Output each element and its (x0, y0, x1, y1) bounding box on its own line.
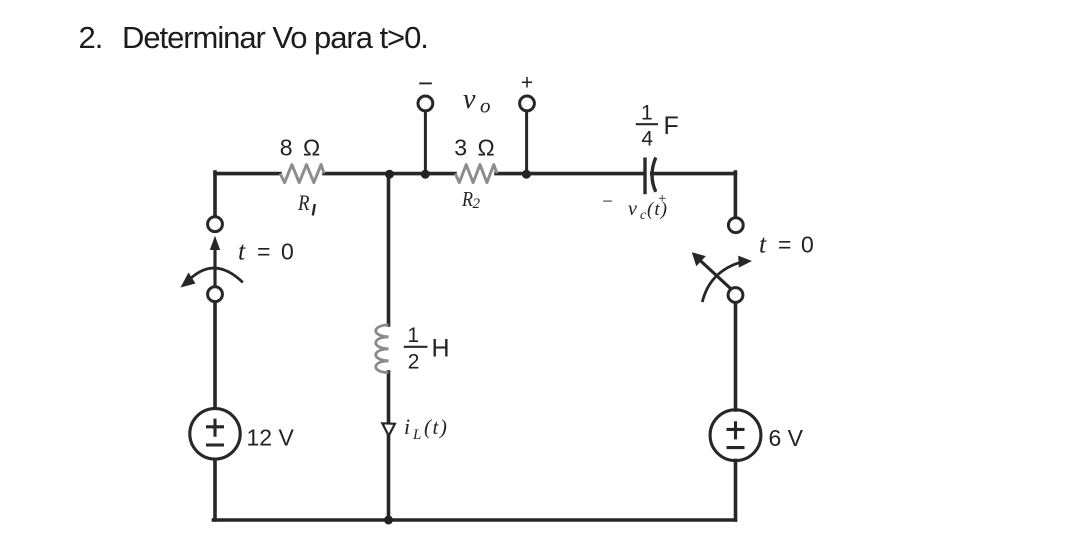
svg-text:2: 2 (473, 196, 481, 212)
svg-text:v: v (628, 198, 637, 220)
svg-text:R: R (297, 190, 310, 215)
svg-text:v: v (463, 84, 476, 115)
svg-text:c: c (640, 208, 647, 223)
svg-text:4: 4 (641, 128, 653, 151)
svg-text:3 Ω: 3 Ω (454, 135, 496, 161)
svg-text:t: t (238, 237, 246, 266)
svg-text:R: R (461, 187, 473, 211)
svg-text:(t): (t) (424, 415, 448, 439)
svg-text:0: 0 (281, 239, 294, 265)
svg-text:F: F (664, 112, 679, 140)
svg-text:2: 2 (408, 351, 420, 374)
svg-text:=: = (257, 239, 270, 265)
svg-text:t: t (759, 230, 767, 259)
svg-text:8 Ω: 8 Ω (280, 135, 322, 161)
svg-text:i: i (404, 414, 410, 439)
svg-text:0: 0 (801, 232, 814, 258)
svg-text:=: = (778, 232, 791, 258)
svg-text:+: + (657, 191, 667, 207)
svg-text:12 V: 12 V (247, 425, 295, 451)
svg-text:H: H (432, 335, 450, 363)
svg-text:−: − (601, 192, 614, 213)
svg-text:+: + (521, 72, 533, 95)
svg-text:1: 1 (641, 102, 653, 125)
svg-text:o: o (480, 94, 491, 118)
svg-text:1: 1 (407, 324, 419, 347)
svg-text:L: L (412, 427, 421, 443)
svg-text:−: − (418, 68, 433, 98)
svg-text:6 V: 6 V (769, 425, 804, 451)
